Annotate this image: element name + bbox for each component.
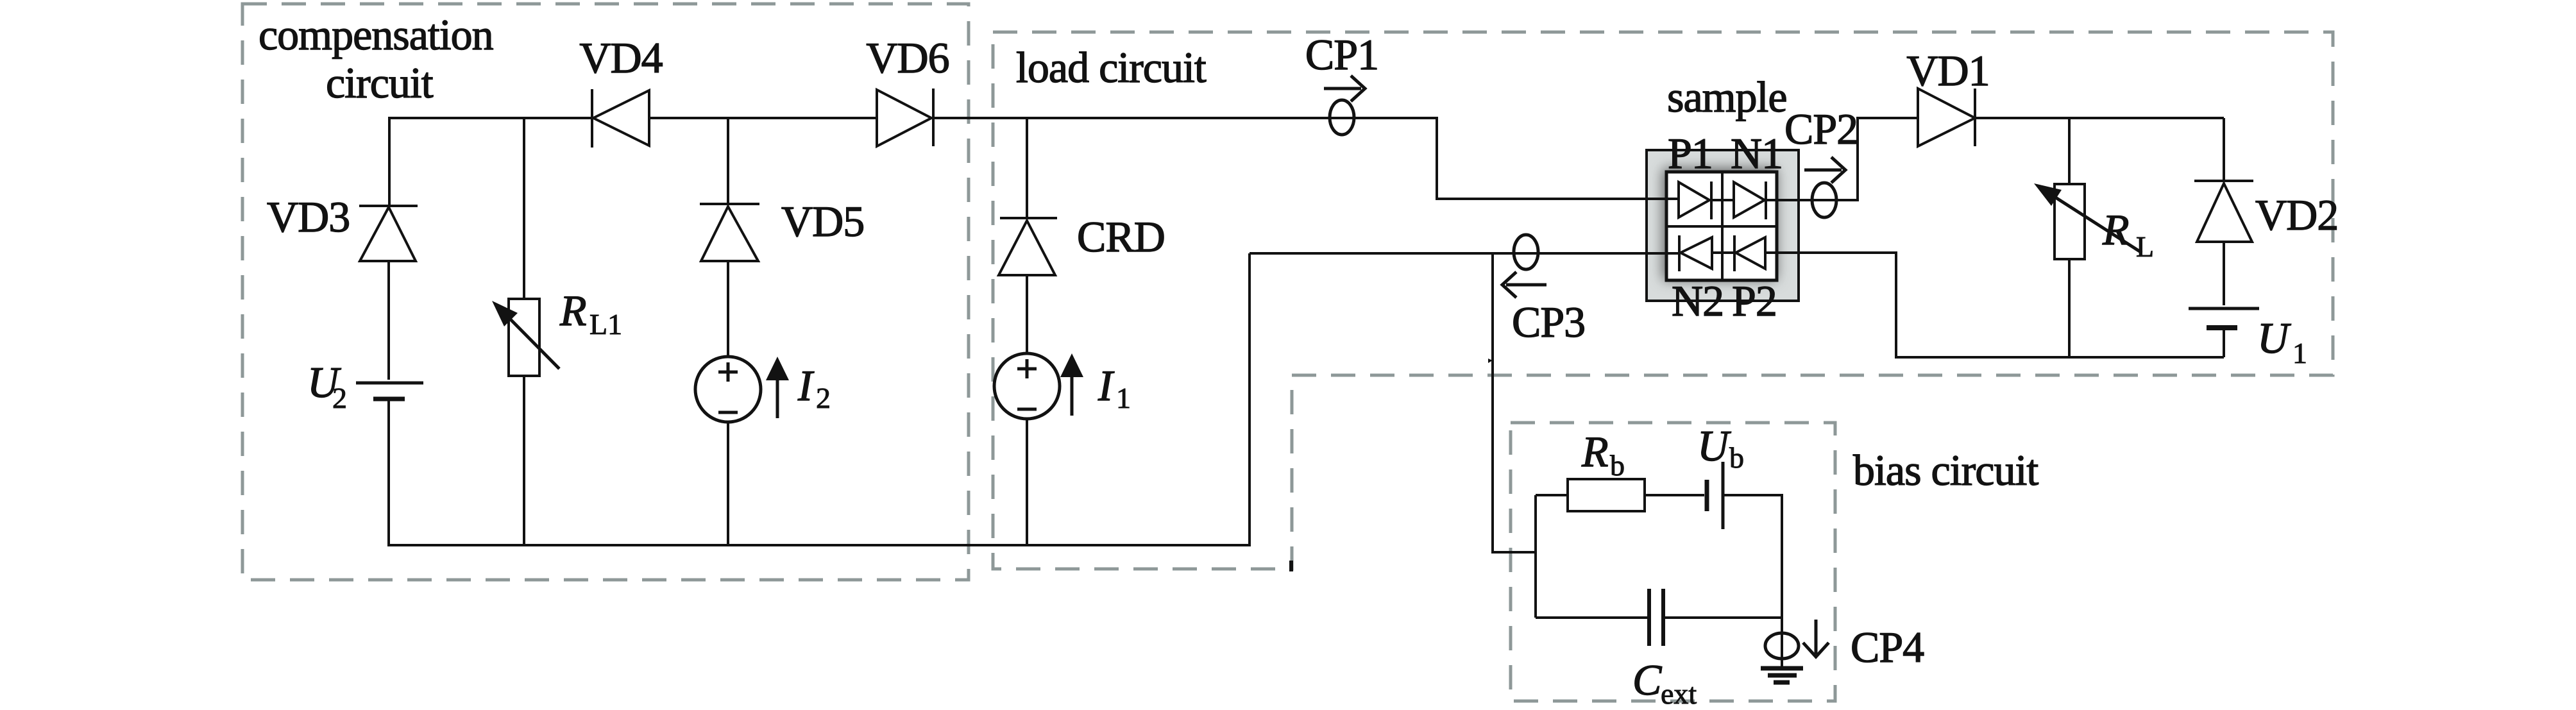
svg-text:C: C (1632, 655, 1662, 704)
svg-text:R: R (559, 286, 586, 335)
svg-text:1: 1 (1116, 382, 1131, 414)
svg-text:R: R (1581, 427, 1608, 476)
svg-text:VD1: VD1 (1906, 46, 1989, 95)
svg-text:N2: N2 (1672, 276, 1724, 325)
svg-text:1: 1 (2292, 337, 2307, 369)
svg-text:I: I (1097, 361, 1115, 410)
svg-text:b: b (1610, 449, 1625, 482)
svg-text:compensation: compensation (258, 10, 493, 59)
svg-text:ext: ext (1661, 677, 1697, 710)
svg-text:CRD: CRD (1077, 212, 1165, 261)
svg-text:L: L (2136, 230, 2154, 263)
svg-text:U: U (1697, 421, 1731, 470)
svg-text:2: 2 (332, 382, 347, 414)
svg-text:bias circuit: bias circuit (1853, 446, 2038, 494)
svg-text:P1: P1 (1668, 129, 1713, 178)
svg-text:VD5: VD5 (781, 197, 864, 246)
svg-text:I: I (797, 361, 815, 410)
svg-text:circuit: circuit (326, 58, 434, 107)
svg-text:U: U (2257, 314, 2291, 362)
svg-text:L1: L1 (589, 308, 622, 341)
svg-text:load circuit: load circuit (1016, 43, 1207, 92)
svg-text:CP4: CP4 (1851, 623, 1924, 672)
svg-text:VD4: VD4 (579, 33, 662, 82)
svg-text:CP3: CP3 (1512, 298, 1585, 346)
svg-text:VD2: VD2 (2255, 190, 2338, 239)
svg-text:VD3: VD3 (267, 192, 350, 241)
svg-text:CP1: CP1 (1305, 30, 1378, 79)
svg-text:R: R (2102, 205, 2129, 254)
svg-text:b: b (1729, 441, 1744, 474)
svg-text:VD6: VD6 (866, 33, 949, 82)
svg-text:P2: P2 (1732, 276, 1777, 325)
svg-text:2: 2 (816, 382, 831, 414)
svg-text:N1: N1 (1731, 129, 1783, 178)
svg-text:CP2: CP2 (1784, 105, 1858, 153)
svg-text:sample: sample (1667, 72, 1787, 121)
